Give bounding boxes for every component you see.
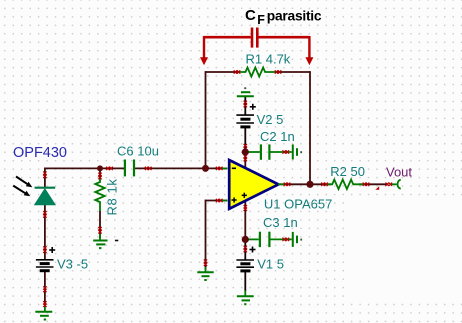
svg-text:U1 OPA657: U1 OPA657: [264, 196, 332, 211]
battery V2: [236, 104, 255, 127]
capacitor C6: [125, 160, 134, 177]
ground right of C3 (sideways): [293, 232, 301, 247]
svg-text:R8 1k: R8 1k: [105, 179, 120, 216]
wire feedback right vertical: [309, 71, 311, 184]
svg-text:C3 1n: C3 1n: [263, 215, 298, 230]
node: output / feedback junction: [306, 181, 313, 188]
svg-text:R1 4.7k: R1 4.7k: [246, 52, 291, 67]
svg-text:Vout: Vout: [386, 164, 412, 179]
ground below V3: [35, 305, 52, 320]
capacitor C3: [248, 232, 292, 247]
wire feedback left vertical: [205, 71, 207, 168]
node: photodiode / R8 / C6 junction: [97, 165, 103, 171]
svg-text:C2 1n: C2 1n: [260, 129, 295, 144]
wire inverting input net: [45, 167, 228, 169]
output terminal Vout: [375, 180, 400, 190]
svg-text:F: F: [257, 13, 265, 27]
op-amp U1: [229, 160, 278, 209]
svg-text:parasitic: parasitic: [267, 8, 322, 23]
resistor R1: [239, 68, 275, 77]
ground below V1: [237, 291, 254, 305]
wire op-amp negative supply pin: [244, 200, 246, 239]
battery V3: [36, 247, 55, 271]
node: inverting input junction: [202, 165, 209, 172]
capacitor C2: [248, 144, 292, 159]
svg-text:V1 5: V1 5: [257, 257, 284, 272]
title CF parasitic: [245, 7, 322, 27]
battery V1: [236, 247, 255, 271]
svg-text:C6 10u: C6 10u: [117, 144, 159, 159]
wire non-inverting input: [206, 200, 228, 270]
red arrow right (pointer to node): [305, 36, 313, 65]
svg-text:V3 -5: V3 -5: [57, 257, 88, 272]
pin connection marks (red x pairs): [43, 70, 392, 307]
svg-text:V2 5: V2 5: [257, 112, 284, 127]
light arrow 2: [13, 186, 30, 197]
ground right of C2 (sideways): [293, 145, 301, 160]
photodiode OPF430: [35, 188, 56, 205]
resistor R8: [95, 177, 104, 211]
wire V2 branch: [244, 96, 246, 152]
wire V1 branch: [244, 239, 246, 291]
wire op-amp positive supply pin: [244, 152, 246, 169]
inverted ground above V2: [237, 88, 254, 96]
wire R8 branch: [99, 168, 101, 238]
svg-text:C: C: [245, 7, 256, 24]
capacitor CF parasitic (red overlay symbol): [204, 28, 309, 48]
node: V1 / C3 / supply junction: [242, 236, 249, 243]
svg-text:R2 50: R2 50: [330, 164, 365, 179]
wire output net: [278, 183, 389, 185]
wire feedback top: [206, 71, 311, 73]
svg-text:OPF430: OPF430: [13, 145, 67, 161]
node: V2 / C2 / supply junction: [242, 148, 249, 155]
ground below non-inverting input: [197, 267, 213, 280]
op-amp input/output pin stubs: [222, 168, 285, 200]
light arrow 1: [16, 177, 32, 188]
wire photodiode branch: [44, 168, 46, 306]
resistor R2: [327, 180, 364, 189]
ground below R8: [93, 234, 118, 248]
red arrow left (pointer to node): [200, 36, 208, 65]
